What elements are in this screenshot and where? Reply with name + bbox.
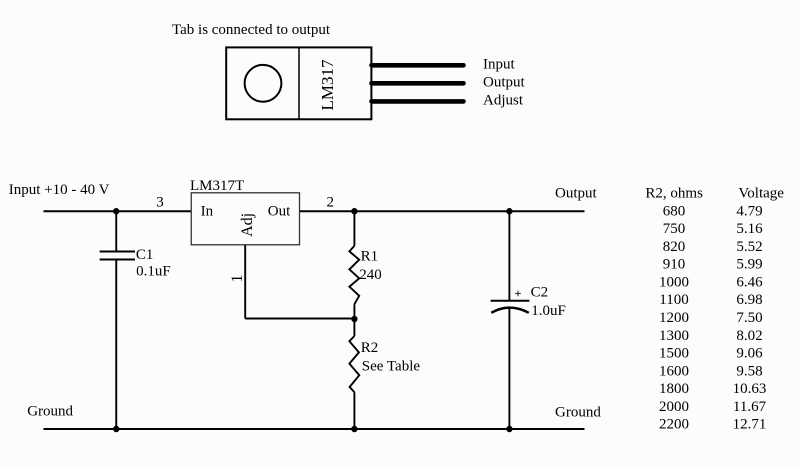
svg-text:Ground: Ground	[555, 404, 601, 420]
svg-text:2200: 2200	[659, 417, 689, 433]
svg-text:11.67: 11.67	[733, 399, 767, 415]
svg-text:10.63: 10.63	[733, 381, 767, 397]
svg-text:Adj: Adj	[239, 213, 256, 237]
svg-text:1: 1	[229, 275, 246, 283]
svg-text:1100: 1100	[659, 292, 688, 308]
svg-text:R2: R2	[361, 340, 379, 356]
svg-text:LM317T: LM317T	[190, 178, 244, 194]
svg-text:Adjust: Adjust	[483, 93, 524, 109]
svg-text:5.99: 5.99	[736, 257, 762, 273]
svg-text:6.98: 6.98	[736, 292, 762, 308]
svg-text:240: 240	[359, 267, 382, 283]
svg-text:12.71: 12.71	[733, 417, 767, 433]
svg-text:Output: Output	[555, 186, 598, 202]
svg-text:C2: C2	[531, 284, 549, 300]
svg-text:Ground: Ground	[27, 404, 73, 420]
svg-text:Voltage: Voltage	[738, 186, 784, 202]
svg-text:0.1uF: 0.1uF	[136, 263, 171, 279]
svg-text:7.50: 7.50	[736, 310, 762, 326]
svg-text:3: 3	[156, 194, 164, 210]
svg-text:750: 750	[663, 221, 686, 237]
svg-text:Input +10 - 40 V: Input +10 - 40 V	[9, 182, 110, 198]
svg-text:680: 680	[663, 203, 686, 219]
svg-text:1300: 1300	[659, 328, 689, 344]
svg-text:2: 2	[327, 194, 335, 210]
svg-text:1.0uF: 1.0uF	[531, 303, 566, 319]
svg-text:1800: 1800	[659, 381, 689, 397]
svg-text:1500: 1500	[659, 346, 689, 362]
svg-text:6.46: 6.46	[736, 274, 763, 290]
svg-text:Output: Output	[483, 75, 526, 91]
svg-text:820: 820	[663, 239, 686, 255]
svg-text:5.52: 5.52	[736, 239, 762, 255]
svg-text:In: In	[201, 204, 214, 220]
svg-text:LM317: LM317	[318, 59, 337, 111]
svg-text:R2, ohms: R2, ohms	[645, 186, 703, 202]
svg-text:8.02: 8.02	[736, 328, 762, 344]
svg-text:5.16: 5.16	[736, 221, 763, 237]
svg-text:Out: Out	[268, 204, 291, 220]
svg-text:C1: C1	[136, 247, 154, 263]
svg-text:9.06: 9.06	[736, 346, 763, 362]
svg-text:1600: 1600	[659, 363, 689, 379]
svg-text:9.58: 9.58	[736, 363, 762, 379]
svg-text:1000: 1000	[659, 274, 689, 290]
svg-text:Tab is connected to output: Tab is connected to output	[172, 22, 331, 38]
svg-text:Input: Input	[483, 56, 515, 72]
svg-text:1200: 1200	[659, 310, 689, 326]
svg-text:R1: R1	[361, 249, 379, 265]
svg-text:4.79: 4.79	[736, 203, 762, 219]
svg-text:See Table: See Table	[362, 359, 421, 375]
svg-text:2000: 2000	[659, 399, 689, 415]
svg-text:910: 910	[663, 257, 686, 273]
